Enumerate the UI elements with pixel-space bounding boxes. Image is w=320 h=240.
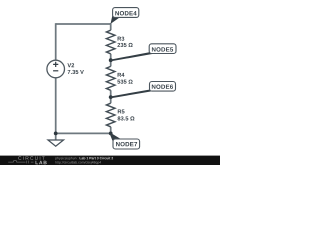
ground	[48, 133, 64, 146]
node NODE6 flag	[150, 82, 176, 92]
node NODE7 flag	[113, 139, 140, 149]
wire bottom horizontal from ground corner to resistor chain	[56, 132, 111, 134]
watermark caption line 2 url	[55, 161, 101, 164]
label V2 value 7.35 V	[68, 70, 84, 74]
wire left vertical from V2 bottom to ground corner	[55, 78, 57, 134]
label R3	[118, 37, 125, 41]
wire R3 bottom lead through NODE5 junction to R4 top lead	[110, 54, 112, 67]
watermark bar	[0, 156, 220, 165]
watermark logo waveform	[8, 161, 33, 164]
node NODE5 flag	[149, 44, 176, 54]
resistor R3	[106, 30, 115, 54]
junction dot at NODE7 tap	[109, 132, 113, 136]
wire left vertical from top corner to V2 top	[55, 23, 57, 60]
watermark logo LAB	[36, 161, 47, 164]
label R3 value 235 ohm	[117, 43, 132, 47]
watermark logo CIRCUIT	[18, 156, 45, 160]
label R5	[118, 109, 125, 113]
label R4 value 535 ohm	[117, 80, 132, 84]
node NODE4 flag pointer	[111, 14, 120, 24]
node NODE7 flag pointer	[110, 133, 121, 144]
wire R3 top lead	[110, 23, 112, 30]
resistor R4	[106, 66, 115, 90]
wire R4 bottom lead through NODE6 junction to R5 top lead	[110, 90, 112, 103]
junction dot at NODE5 tap	[109, 58, 113, 62]
node NODE6 flag pointer	[110, 90, 153, 99]
node NODE4 flag	[113, 8, 139, 18]
label R4	[118, 73, 125, 77]
wire R5 bottom lead to bottom wire	[110, 127, 112, 134]
resistor R5	[106, 103, 115, 127]
voltage source V2	[47, 60, 65, 78]
node NODE5 flag pointer	[110, 52, 153, 61]
junction dot at NODE6 tap	[109, 95, 113, 99]
label V2	[67, 63, 74, 67]
watermark caption line 1 user	[55, 157, 78, 160]
watermark caption line 1 title	[80, 157, 113, 160]
label R5 value 83.5 ohm	[118, 116, 135, 120]
wire top horizontal from V2 to resistor chain	[56, 23, 111, 25]
junction dot at ground corner	[54, 132, 58, 136]
